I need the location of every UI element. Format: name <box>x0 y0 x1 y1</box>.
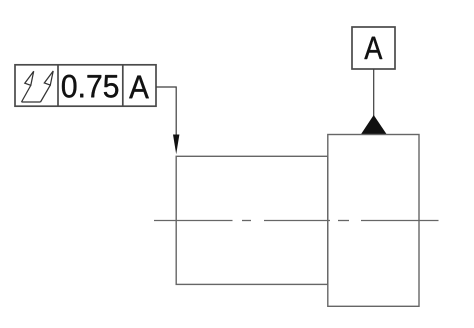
part flange outline <box>328 135 419 307</box>
datum feature symbol box <box>352 27 395 69</box>
centerline short dash 2 <box>338 220 349 222</box>
part cylinder body outline <box>176 156 328 284</box>
feature control frame outer box <box>15 65 156 106</box>
total runout symbol <box>22 71 54 102</box>
datum filled triangle <box>361 115 387 135</box>
leader wire from FCF to part <box>156 87 176 136</box>
centerline short dash 1 <box>242 220 251 222</box>
centerline long dash 3 <box>361 220 439 222</box>
FCF divider 1 (symbol/tolerance) <box>57 65 59 106</box>
centerline long dash 1 <box>154 220 233 222</box>
tolerance value label 0.75 <box>62 75 118 98</box>
datum letter A <box>364 37 382 59</box>
centerline long dash 2 <box>264 220 330 222</box>
leader arrowhead <box>173 135 179 155</box>
datum leader line <box>373 69 375 120</box>
FCF divider 2 (tolerance/datum) <box>122 65 124 106</box>
datum reference letter A in FCF <box>129 76 149 99</box>
